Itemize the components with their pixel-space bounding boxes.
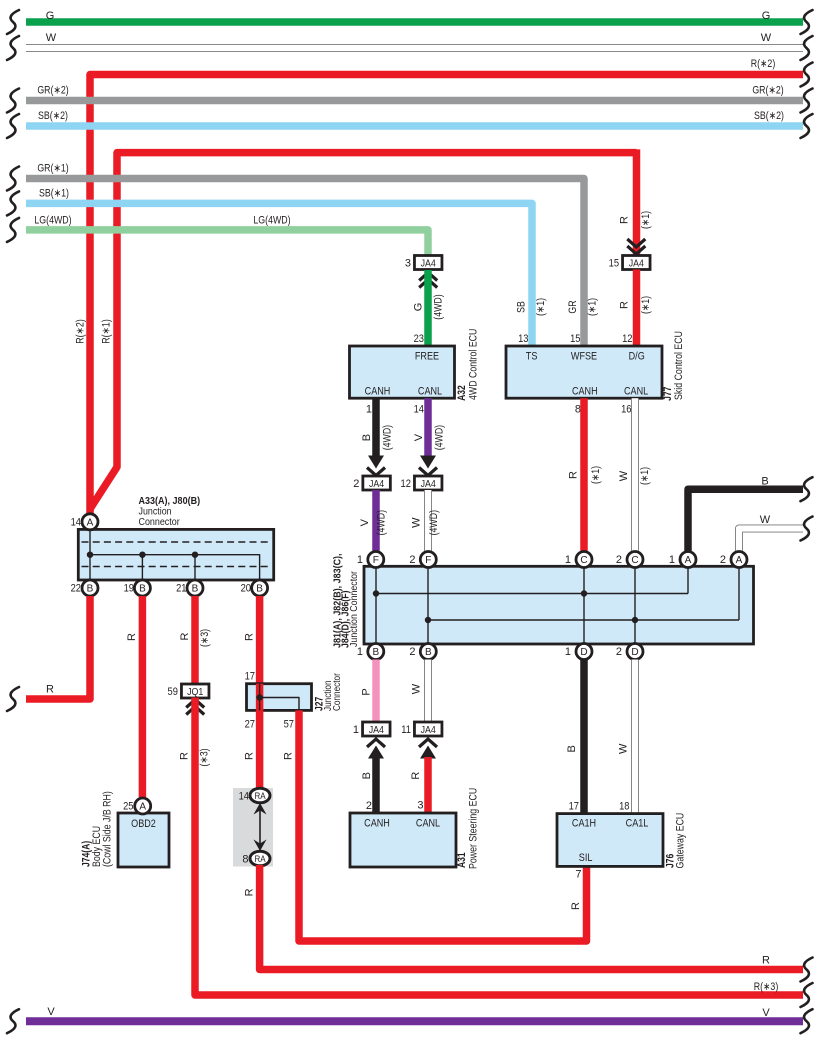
- junction pin 1 A: [680, 552, 696, 568]
- svg-text:OBD2: OBD2: [131, 818, 156, 830]
- svg-text:27: 27: [245, 719, 255, 731]
- svg-text:1: 1: [366, 404, 372, 416]
- svg-text:R: R: [179, 752, 191, 760]
- svg-text:(4WD): (4WD): [376, 510, 388, 535]
- svg-text:GR(∗1): GR(∗1): [37, 163, 68, 175]
- connector JQ1 pin 59: [181, 684, 209, 698]
- svg-text:B: B: [361, 772, 373, 779]
- connector JA4 pin 12: [414, 476, 442, 490]
- ECU box A31 Power Steering ECU: [350, 813, 456, 867]
- wire W white junction pin D2 to J76 CA1L pin 18: [631, 660, 639, 814]
- svg-text:CANH: CANH: [365, 385, 391, 397]
- wire W white from right edge to junction pin A2: [739, 529, 803, 553]
- svg-text:12: 12: [401, 478, 411, 490]
- svg-text:1: 1: [565, 554, 571, 566]
- junction pin 2 C: [627, 552, 643, 568]
- svg-text:(∗1): (∗1): [590, 466, 602, 484]
- svg-text:CANL: CANL: [418, 385, 442, 397]
- svg-text:(∗3): (∗3): [199, 629, 211, 647]
- svg-text:WFSE: WFSE: [571, 351, 597, 363]
- svg-text:GR(∗2): GR(∗2): [752, 85, 783, 97]
- svg-text:W: W: [46, 32, 57, 44]
- svg-text:CA1H: CA1H: [572, 817, 596, 829]
- RA internal arrow: [259, 806, 261, 848]
- svg-text:2: 2: [409, 554, 415, 566]
- svg-text:V: V: [413, 433, 425, 441]
- ECU box J77 Skid Control ECU: [506, 346, 662, 398]
- svg-text:A: A: [685, 555, 692, 566]
- svg-text:19: 19: [124, 583, 134, 595]
- svg-text:R(∗3): R(∗3): [754, 981, 779, 993]
- svg-text:2: 2: [616, 646, 622, 658]
- svg-text:20: 20: [241, 583, 251, 595]
- svg-text:JA4: JA4: [369, 478, 384, 490]
- svg-text:2: 2: [353, 478, 359, 490]
- wire V(4WD) purple from A32 CANL to JA4-12: [424, 398, 432, 456]
- svg-text:2: 2: [366, 800, 372, 812]
- svg-text:Connector: Connector: [332, 673, 343, 711]
- wire R(*3) red below JQ1 to bottom right edge: [195, 698, 803, 996]
- svg-text:R: R: [570, 902, 582, 910]
- junction connector J27 box: [247, 684, 312, 711]
- svg-text:1: 1: [565, 646, 571, 658]
- svg-text:1: 1: [357, 554, 363, 566]
- svg-text:SB: SB: [516, 301, 528, 313]
- svg-text:12: 12: [622, 333, 632, 345]
- svg-text:B: B: [372, 647, 379, 658]
- svg-text:SB(∗2): SB(∗2): [754, 110, 784, 122]
- junction pin 2 D: [627, 644, 643, 660]
- svg-text:14: 14: [239, 790, 249, 802]
- svg-text:11: 11: [401, 724, 411, 736]
- wire GR(*2) (gray horizontal): [26, 97, 803, 105]
- svg-text:13: 13: [518, 333, 528, 345]
- svg-text:21: 21: [176, 583, 186, 595]
- wire V(4WD) purple JA4-2 to junction pin F1: [372, 490, 380, 552]
- wire G (green horizontal, top): [26, 18, 803, 26]
- svg-text:W: W: [411, 517, 423, 528]
- junction connector J81(A) J82(B) J83(C) J84(D) J86(F) box: [364, 566, 754, 644]
- svg-text:F: F: [373, 555, 379, 566]
- svg-text:R: R: [410, 772, 422, 780]
- svg-text:SB(∗2): SB(∗2): [38, 110, 68, 122]
- svg-text:JA4: JA4: [629, 257, 644, 269]
- wire R red from A33 pin 19 to OBD2 pin 25: [139, 596, 147, 799]
- svg-text:B: B: [139, 584, 146, 595]
- svg-text:57: 57: [284, 719, 294, 731]
- svg-text:G: G: [413, 303, 425, 312]
- svg-text:V: V: [47, 1006, 55, 1018]
- A33 pin 19 B: [134, 580, 150, 596]
- A33 pin 22 B: [82, 580, 98, 596]
- svg-text:(∗1): (∗1): [587, 298, 599, 316]
- svg-text:FREE: FREE: [415, 351, 439, 363]
- svg-text:R: R: [619, 301, 631, 309]
- A33 pin 14 A: [82, 514, 98, 530]
- svg-text:(4WD): (4WD): [433, 294, 445, 319]
- svg-text:F: F: [425, 555, 431, 566]
- svg-text:(4WD): (4WD): [382, 425, 394, 450]
- svg-text:A: A: [139, 802, 146, 813]
- connector JA4 pin 1: [363, 722, 391, 736]
- svg-text:1: 1: [669, 554, 675, 566]
- svg-text:25: 25: [123, 801, 133, 813]
- svg-text:3: 3: [417, 800, 423, 812]
- svg-text:A: A: [736, 555, 743, 566]
- wire SB(*2) (light blue horizontal): [26, 122, 803, 130]
- wire LG(4WD) light green horizontal + vertical to JA4-3: [26, 230, 428, 256]
- wire R(*3) red from A33 pin 21 to JQ1: [191, 596, 199, 685]
- connector JA4 pin 15 (red wire): [627, 246, 645, 254]
- svg-text:D: D: [580, 647, 587, 658]
- svg-text:V: V: [762, 1007, 770, 1019]
- svg-text:A: A: [87, 517, 94, 528]
- svg-text:GR: GR: [567, 300, 579, 313]
- RA pin 14: [250, 788, 270, 803]
- svg-text:B: B: [192, 584, 199, 595]
- svg-text:GR(∗2): GR(∗2): [37, 85, 68, 97]
- svg-text:16: 16: [621, 404, 631, 416]
- svg-text:(∗1): (∗1): [640, 296, 652, 314]
- svg-text:R: R: [126, 633, 138, 641]
- junction pin 2 F: [420, 552, 436, 568]
- right edge continuation squiggles (top): [801, 10, 813, 34]
- svg-text:D: D: [631, 647, 638, 658]
- wire V purple horizontal at bottom: [26, 1017, 803, 1025]
- svg-text:R: R: [283, 752, 295, 760]
- junction pin 1 B: [368, 644, 384, 660]
- svg-text:Junction Connector: Junction Connector: [349, 570, 360, 647]
- svg-text:3: 3: [405, 258, 411, 270]
- svg-text:CA1L: CA1L: [626, 817, 649, 829]
- wire R(*2) horizontal + left vertical to A33 pin 14: [90, 75, 803, 514]
- svg-text:R: R: [244, 888, 256, 896]
- wire R red from A33 pin 20 to J27 pin 17: [256, 596, 264, 684]
- svg-text:JA4: JA4: [421, 724, 436, 736]
- internal bus of A33: [89, 529, 91, 580]
- svg-text:CANH: CANH: [364, 818, 390, 830]
- wire B black from right edge to junction pin A1: [688, 489, 803, 552]
- svg-text:B: B: [361, 434, 373, 441]
- junction connector A33(A), J80(B) box: [78, 529, 273, 580]
- wire P pink from junction pin B1 to JA4-1: [372, 660, 380, 723]
- ECU box J74 OBD2: [118, 813, 169, 867]
- svg-text:R: R: [244, 633, 256, 641]
- svg-text:W: W: [618, 470, 630, 481]
- svg-text:4WD Control ECU: 4WD Control ECU: [467, 329, 479, 400]
- wire GR(*1) gray horizontal + vertical to J77 WFSE: [26, 179, 584, 347]
- svg-text:(∗1): (∗1): [639, 467, 651, 485]
- svg-text:C: C: [631, 555, 638, 566]
- svg-text:1: 1: [357, 646, 363, 658]
- svg-text:JA4: JA4: [369, 724, 384, 736]
- svg-text:14: 14: [414, 404, 424, 416]
- svg-text:17: 17: [245, 671, 255, 683]
- svg-text:CANL: CANL: [416, 818, 440, 830]
- svg-text:JA4: JA4: [421, 478, 436, 490]
- wire W(*1) white J77 CANL to junction pin C2: [631, 398, 639, 552]
- wire B black junction pin D1 to J76 CA1H pin 17: [580, 660, 588, 814]
- svg-text:RA: RA: [254, 854, 266, 865]
- svg-text:B: B: [425, 647, 432, 658]
- svg-text:V: V: [359, 518, 371, 526]
- svg-text:R: R: [762, 955, 770, 967]
- svg-text:TS: TS: [526, 351, 538, 363]
- svg-text:(4WD): (4WD): [428, 510, 440, 535]
- wire R(*1) horizontal, vertical to JA4-15 and diagonal to A33 pin 14: [90, 153, 637, 509]
- svg-text:(4WD): (4WD): [434, 425, 446, 450]
- svg-text:Power Steering ECU: Power Steering ECU: [467, 788, 479, 869]
- svg-text:P: P: [361, 688, 373, 695]
- svg-text:CANH: CANH: [572, 385, 598, 397]
- svg-text:R: R: [619, 216, 631, 224]
- svg-text:A33(A), J80(B): A33(A), J80(B): [139, 496, 201, 507]
- wire W (white horizontal): [26, 44, 803, 52]
- svg-text:8: 8: [242, 853, 248, 865]
- svg-text:R(∗2): R(∗2): [74, 319, 86, 344]
- svg-text:Skid Control ECU: Skid Control ECU: [673, 331, 685, 400]
- svg-text:R: R: [244, 752, 256, 760]
- svg-text:G: G: [46, 10, 55, 22]
- internal wiring of junction connector: [375, 566, 377, 644]
- wire red through J27 (pin 17 to 27): [256, 684, 264, 711]
- wire R red from RA pin 8 to right edge: [260, 865, 803, 970]
- svg-text:B: B: [761, 476, 768, 488]
- svg-text:15: 15: [570, 333, 580, 345]
- svg-text:Gateway ECU: Gateway ECU: [674, 813, 686, 869]
- OBD2 pin 25 A: [135, 798, 151, 814]
- wire R(*1) red J77 CANH to junction pin C1: [580, 398, 588, 552]
- A33 pin 20 B: [252, 580, 268, 596]
- junction pin 1 F: [368, 552, 384, 568]
- svg-text:B: B: [87, 584, 94, 595]
- connector JA4 pin 3 (green wire): [414, 256, 442, 270]
- wire R red from A33 pin 22 to left edge: [26, 596, 90, 699]
- junction pin 2 A: [731, 552, 747, 568]
- wire R red J27 pin 57 to J76 SIL pin 7: [299, 710, 587, 941]
- svg-text:SB(∗1): SB(∗1): [39, 188, 69, 200]
- svg-text:R: R: [179, 632, 191, 640]
- svg-text:18: 18: [619, 801, 629, 813]
- svg-text:R: R: [46, 684, 54, 696]
- svg-text:22: 22: [71, 583, 81, 595]
- A33 pin 21 B: [187, 580, 203, 596]
- svg-text:CANL: CANL: [624, 385, 648, 397]
- svg-text:7: 7: [575, 869, 581, 881]
- wire SB(*1) blue horizontal + vertical to J77 TS: [26, 203, 532, 346]
- svg-text:C: C: [580, 555, 587, 566]
- svg-text:W: W: [761, 32, 772, 44]
- svg-text:D/G: D/G: [629, 351, 645, 363]
- svg-text:SIL: SIL: [579, 852, 593, 864]
- svg-text:W: W: [411, 683, 423, 694]
- svg-text:2: 2: [720, 554, 726, 566]
- ECU box A32 4WD Control ECU: [350, 346, 455, 398]
- svg-text:B: B: [256, 584, 263, 595]
- shield connector RA block: [233, 788, 273, 867]
- wire R red J27 pin 27 to shield RA pin 14: [256, 710, 264, 790]
- svg-text:1: 1: [353, 724, 359, 736]
- svg-text:23: 23: [414, 333, 424, 345]
- svg-text:R(∗2): R(∗2): [751, 58, 776, 70]
- wire W(4WD) white JA4-12 to junction pin F2: [424, 490, 432, 552]
- svg-text:2: 2: [409, 646, 415, 658]
- chevron arrows below JA4-3: [419, 273, 437, 281]
- svg-text:(Cowl Side J/B RH): (Cowl Side J/B RH): [102, 791, 114, 867]
- svg-text:Connector: Connector: [139, 517, 181, 528]
- svg-text:14: 14: [71, 516, 81, 528]
- svg-text:RA: RA: [254, 791, 266, 802]
- svg-text:59: 59: [168, 686, 178, 698]
- wire R red JA4-11 to A31 CANL pin 3: [419, 739, 437, 747]
- connector JA4 pin 2: [363, 476, 391, 490]
- svg-text:W: W: [618, 743, 630, 754]
- junction pin 1 C: [576, 552, 592, 568]
- svg-text:B: B: [566, 745, 578, 752]
- svg-text:JQ1: JQ1: [187, 686, 203, 698]
- svg-text:LG(4WD): LG(4WD): [34, 215, 71, 227]
- wire B(4WD) black from A32 CANH to JA4-2: [372, 398, 380, 456]
- svg-text:(∗1): (∗1): [535, 298, 547, 316]
- svg-text:(∗3): (∗3): [199, 748, 211, 766]
- RA pin 8: [250, 851, 270, 866]
- svg-text:A31: A31: [456, 852, 468, 868]
- svg-text:G: G: [762, 10, 771, 22]
- svg-text:2: 2: [616, 554, 622, 566]
- connector JA4 pin 11: [414, 722, 442, 736]
- svg-text:8: 8: [575, 404, 581, 416]
- svg-text:15: 15: [609, 258, 619, 270]
- svg-text:LG(4WD): LG(4WD): [253, 215, 290, 227]
- junction pin 2 B: [420, 644, 436, 660]
- wire G(4WD) green vertical JA4-3 to A32 FREE: [424, 270, 432, 346]
- svg-text:(∗1): (∗1): [640, 211, 652, 229]
- left edge continuation squiggles: [7, 10, 19, 34]
- wire W white from junction pin B2 to JA4-11: [424, 660, 432, 723]
- svg-text:R(∗1): R(∗1): [101, 319, 113, 344]
- internal bus of J27: [259, 684, 261, 710]
- svg-text:A32: A32: [456, 385, 468, 401]
- ECU box J76 Gateway ECU: [557, 814, 663, 867]
- svg-text:R: R: [568, 471, 580, 479]
- wire R(*1) red JA4-15 to J77 D/G: [633, 270, 641, 347]
- wire B black JA4-1 to A31 CANH pin 2: [367, 739, 385, 747]
- svg-text:W: W: [760, 514, 771, 526]
- junction pin 1 D: [576, 644, 592, 660]
- svg-text:JA4: JA4: [421, 257, 436, 269]
- svg-text:17: 17: [569, 801, 579, 813]
- svg-text:Junction: Junction: [139, 507, 172, 518]
